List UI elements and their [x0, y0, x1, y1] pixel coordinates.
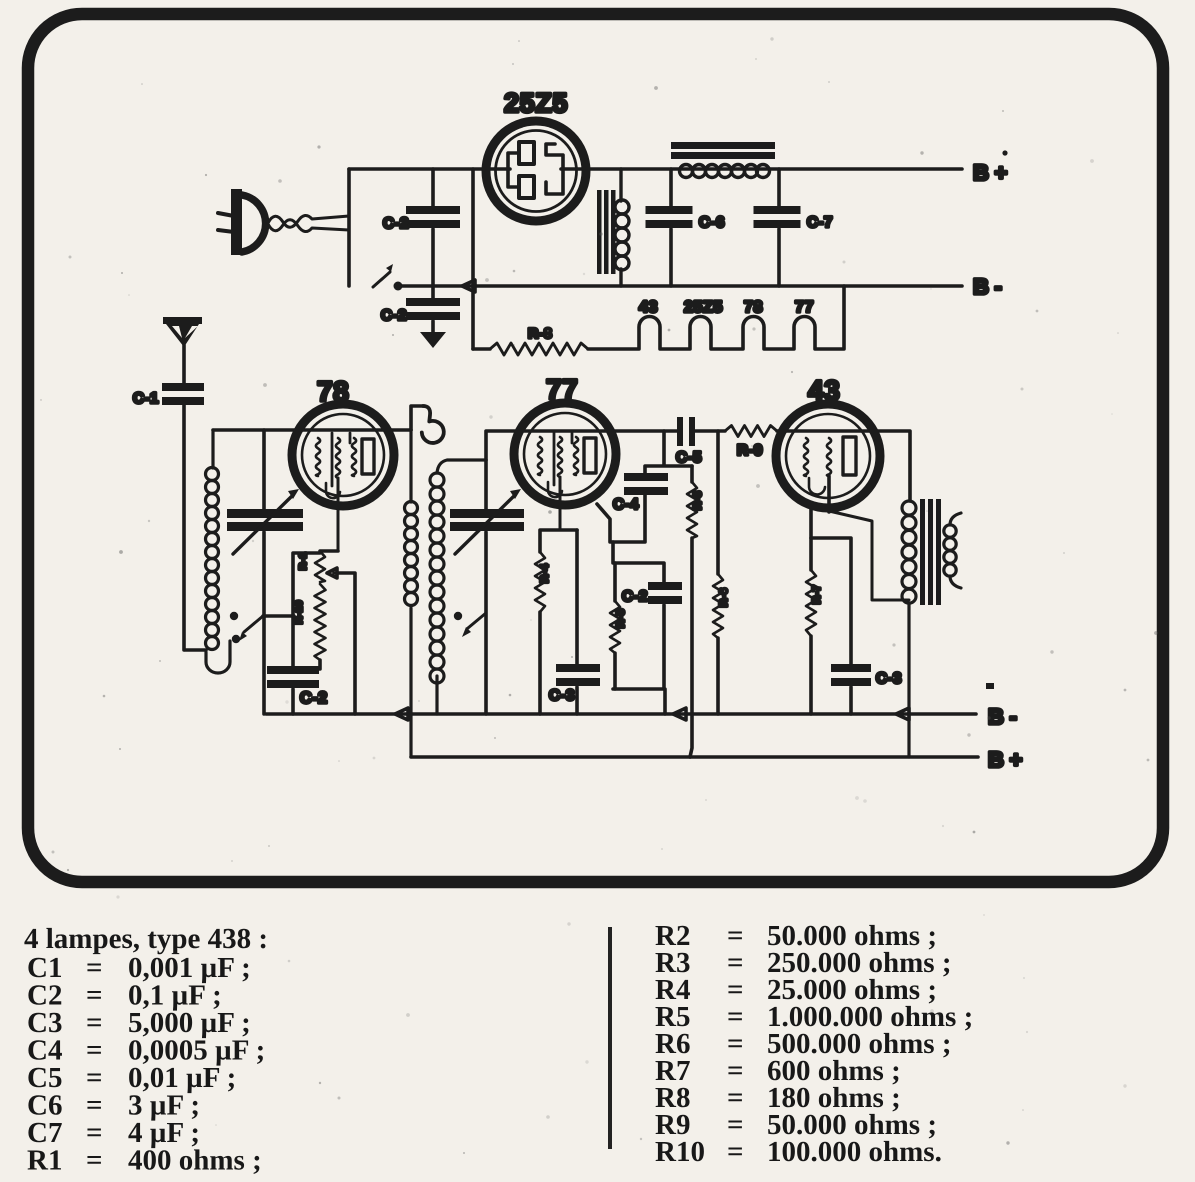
- capacitor C2 (to ground): [406, 286, 460, 332]
- label R-7 (rotated): [811, 584, 823, 604]
- svg-text:78: 78: [744, 299, 763, 316]
- ground symbol: [420, 332, 446, 348]
- RF transformer primary L2: [405, 430, 418, 757]
- wire: B+ bottom rail: [411, 755, 978, 759]
- svg-text:R-7: R-7: [811, 584, 823, 604]
- AVC filter C2: [613, 542, 682, 714]
- label C-2: [622, 588, 648, 605]
- antenna coil L1: [206, 430, 231, 673]
- label R-1 (rotated): [298, 552, 309, 570]
- label R-4 (rotated): [539, 563, 551, 583]
- value C6: [27, 1090, 200, 1122]
- value C3: [27, 1007, 251, 1039]
- AVC wiper arrow: [327, 568, 355, 714]
- svg-text:C-2: C-2: [622, 588, 648, 605]
- svg-text:4 lampes, type 438 :: 4 lampes, type 438 :: [24, 923, 268, 955]
- output transformer secondary L6: [944, 513, 961, 588]
- capacitor C7: [754, 169, 801, 286]
- rectifier tube V1 25Z5: [486, 121, 586, 221]
- label R-3 (rotated): [692, 490, 704, 510]
- svg-text:R-9: R-9: [737, 442, 763, 459]
- wire: B- top line: [398, 284, 962, 288]
- switch SW1: [373, 264, 403, 291]
- svg-text:25Z5: 25Z5: [684, 299, 723, 316]
- label R-8: [528, 325, 552, 341]
- border frame: [28, 14, 1163, 882]
- value R3: [655, 947, 951, 979]
- screen feed jog: [597, 494, 645, 542]
- value C1: [27, 952, 251, 984]
- twisted line cord: [268, 215, 349, 231]
- wire: plug junction vertical: [347, 169, 351, 286]
- output transformer primary L5: [902, 501, 916, 757]
- svg-text:B -: B -: [973, 274, 1002, 299]
- parts list title: [24, 923, 268, 955]
- output transformer core: [920, 499, 941, 605]
- svg-text:C-1: C-1: [133, 390, 159, 407]
- wire: top B+ feed line: [349, 167, 962, 171]
- svg-text:R-4: R-4: [539, 563, 551, 583]
- antenna: [163, 317, 202, 384]
- capacitor C1: [162, 383, 204, 650]
- svg-text:77: 77: [795, 299, 814, 316]
- label B+ (top): [973, 150, 1008, 185]
- resistor R9: [695, 426, 777, 437]
- svg-text:C-6: C-6: [699, 214, 725, 231]
- svg-text:400 ohms ;: 400 ohms ;: [128, 1145, 262, 1177]
- band switch arm: [239, 616, 294, 641]
- svg-text:R-8: R-8: [528, 325, 552, 341]
- svg-text:C-7: C-7: [807, 214, 833, 231]
- value C5: [27, 1062, 236, 1094]
- label C-2: [381, 307, 407, 324]
- tube V2 78: [292, 404, 394, 551]
- value C7: [27, 1117, 200, 1149]
- value C2: [27, 980, 222, 1012]
- svg-text:=: =: [727, 1136, 744, 1168]
- label R-6 (rotated): [718, 587, 730, 607]
- label C-2: [300, 690, 328, 707]
- value R6: [655, 1028, 951, 1060]
- variable capacitor VC2: [450, 460, 524, 714]
- label C-3: [549, 687, 575, 704]
- wire: B- bottom rail: [266, 712, 976, 716]
- svg-text:R10: R10: [655, 1136, 705, 1168]
- heater labels 43 25Z5 78 77: [639, 299, 814, 316]
- label C-2: [383, 215, 409, 232]
- value R4: [655, 974, 937, 1006]
- label 25Z5: [504, 88, 568, 118]
- value R2: [655, 920, 937, 952]
- variable capacitor VC1: [227, 430, 303, 714]
- label C-5: [676, 449, 702, 466]
- resistor R7: [806, 504, 816, 714]
- resistor R4: [535, 530, 577, 714]
- value R9: [655, 1109, 937, 1141]
- RF primary single-turn hook: [422, 406, 444, 443]
- capacitor C3 (cathode stage2): [556, 530, 600, 714]
- label R-9: [737, 442, 763, 459]
- svg-text:43: 43: [639, 299, 658, 316]
- svg-text:R-3: R-3: [692, 490, 704, 510]
- junction arrow on B- line: [462, 280, 475, 292]
- svg-text:R-5: R-5: [615, 608, 627, 628]
- svg-text:R1: R1: [27, 1145, 62, 1177]
- value R10: [655, 1136, 942, 1168]
- label C-4: [613, 496, 639, 513]
- svg-text:25Z5: 25Z5: [504, 88, 568, 118]
- secondary tap dot and arrow: [454, 612, 486, 637]
- svg-text:C-2: C-2: [381, 307, 407, 324]
- svg-text:C-2: C-2: [300, 690, 328, 707]
- capacitor C4: [624, 431, 692, 495]
- resistor R10: [294, 584, 326, 669]
- rail arrows: [395, 708, 909, 720]
- label 43: [808, 375, 840, 406]
- svg-text:B -: B -: [988, 704, 1017, 729]
- screen wire: [829, 511, 909, 600]
- rectifier filter coil winding: [615, 169, 629, 286]
- label C-3: [876, 670, 902, 687]
- svg-text:100.000 ohms.: 100.000 ohms.: [767, 1136, 942, 1168]
- label C-6: [699, 214, 725, 231]
- tube V3 77: [514, 403, 616, 530]
- value R1: [27, 1145, 262, 1177]
- heater string of tubes 43 / 25Z5 / 78 / 77: [588, 286, 844, 349]
- column divider: [608, 927, 612, 1149]
- svg-text:R-6: R-6: [718, 587, 730, 607]
- coil tap dots: [230, 612, 240, 643]
- capacitor C2 (cathode stage1): [267, 553, 320, 714]
- label B+ (bottom): [988, 747, 1023, 772]
- label 78: [317, 376, 349, 407]
- svg-text:B +: B +: [973, 160, 1008, 185]
- AC plug P1: [218, 189, 266, 255]
- svg-text:C-3: C-3: [876, 670, 902, 687]
- resistor R8: [473, 343, 588, 355]
- svg-text:=: =: [86, 1145, 103, 1177]
- label C-1: [133, 390, 159, 407]
- filter choke L4 core: [671, 142, 775, 159]
- resistor R1: [315, 551, 338, 582]
- label 77: [546, 374, 578, 405]
- capacitor C3 (cathode stage3): [811, 538, 871, 714]
- label R-10 (rotated): [294, 600, 305, 624]
- wire: vertical from top line to heater string: [471, 169, 475, 349]
- value R7: [655, 1055, 901, 1087]
- resistor R5: [610, 563, 620, 689]
- tube V4 43: [776, 404, 880, 512]
- capacitor C5 (coupling): [677, 417, 695, 446]
- svg-text:C-4: C-4: [613, 496, 639, 513]
- wire: C1 to coil bottom: [185, 648, 206, 652]
- wire: grid line stage 1: [213, 428, 411, 432]
- rectifier filter coil core: [597, 190, 616, 274]
- value R5: [655, 1001, 973, 1033]
- wire: 43 plate line: [777, 431, 910, 501]
- capacitor C2 (line bypass, top): [406, 169, 460, 286]
- RF transformer secondary L3: [430, 460, 486, 714]
- value C4: [27, 1035, 265, 1067]
- label B- (top): [973, 274, 1002, 299]
- filter choke L4 winding: [680, 165, 770, 178]
- resistor R6: [713, 431, 723, 714]
- svg-text:B +: B +: [988, 747, 1023, 772]
- label R-5 (rotated): [615, 608, 627, 628]
- resistor R3: [687, 466, 697, 757]
- svg-text:C-5: C-5: [676, 449, 702, 466]
- label C-7: [807, 214, 833, 231]
- wire: 78 plate to RF transformer: [411, 406, 424, 430]
- label B- (bottom): [986, 683, 1017, 729]
- svg-text:C-3: C-3: [549, 687, 575, 704]
- capacitor C6: [646, 169, 693, 286]
- value R8: [655, 1082, 901, 1114]
- wire: grid line stage 2: [486, 431, 677, 460]
- svg-text:C-2: C-2: [383, 215, 409, 232]
- svg-text:R-10: R-10: [294, 600, 305, 624]
